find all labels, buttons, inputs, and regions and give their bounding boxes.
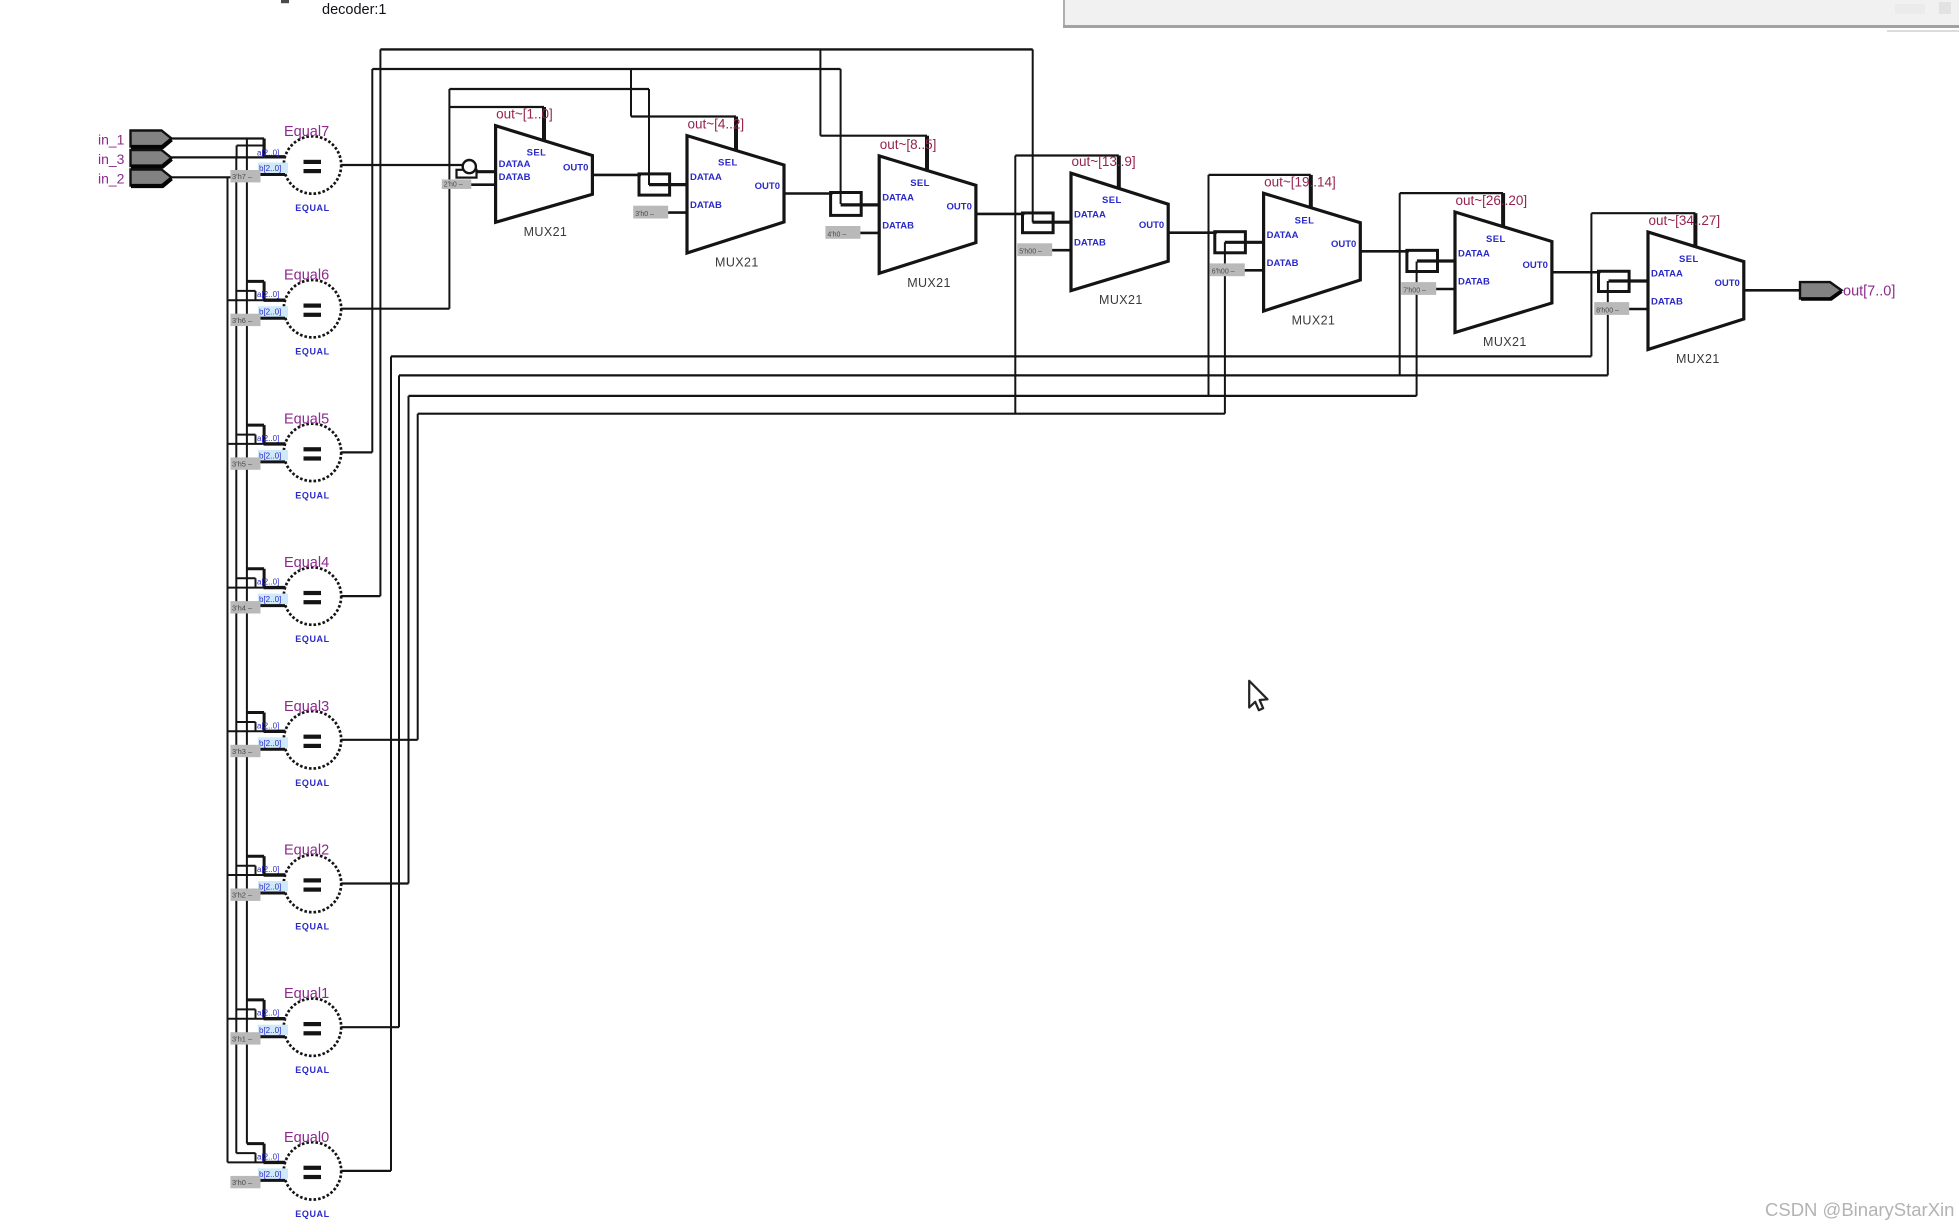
svg-text:out~[26..20]: out~[26..20] [1456, 193, 1528, 208]
svg-text:b[2..0]: b[2..0] [259, 739, 281, 748]
svg-text:in_3: in_3 [98, 151, 125, 167]
svg-text:8'h00 –: 8'h00 – [1596, 307, 1619, 314]
svg-text:MUX21: MUX21 [1676, 352, 1720, 366]
svg-text:DATAB: DATAB [1074, 238, 1106, 249]
svg-text:Equal5: Equal5 [284, 411, 329, 427]
svg-text:OUT0: OUT0 [1523, 260, 1548, 271]
svg-text:3'h0 –: 3'h0 – [635, 211, 654, 218]
svg-text:b[2..0]: b[2..0] [259, 308, 281, 317]
svg-text:MUX21: MUX21 [1483, 335, 1527, 349]
svg-text:a[2..0]: a[2..0] [257, 434, 279, 443]
svg-text:out~[4..2]: out~[4..2] [688, 117, 745, 132]
svg-text:Equal0: Equal0 [284, 1130, 329, 1146]
svg-text:7'h00 –: 7'h00 – [1403, 287, 1426, 294]
svg-text:SEL: SEL [1102, 195, 1122, 206]
svg-text:OUT0: OUT0 [755, 181, 780, 192]
svg-text:EQUAL: EQUAL [295, 922, 330, 932]
svg-text:a[2..0]: a[2..0] [257, 721, 279, 730]
svg-text:CSDN @BinaryStarXin: CSDN @BinaryStarXin [1765, 1199, 1954, 1220]
svg-text:Equal3: Equal3 [284, 699, 329, 715]
svg-text:a[2..0]: a[2..0] [257, 290, 279, 299]
svg-text:2'h0 –: 2'h0 – [444, 181, 463, 188]
svg-text:EQUAL: EQUAL [295, 490, 330, 500]
svg-text:5'h00 –: 5'h00 – [1019, 249, 1042, 256]
svg-text:3'h5 –: 3'h5 – [232, 460, 253, 469]
svg-text:a[2..0]: a[2..0] [257, 1009, 279, 1018]
svg-text:MUX21: MUX21 [1292, 314, 1336, 328]
svg-text:3'h2 –: 3'h2 – [232, 891, 253, 900]
svg-text:3'h1 –: 3'h1 – [232, 1034, 253, 1043]
svg-text:DATAA: DATAA [1651, 269, 1683, 280]
svg-text:DATAB: DATAB [1458, 277, 1490, 288]
svg-text:b[2..0]: b[2..0] [259, 1026, 281, 1035]
svg-text:DATAB: DATAB [690, 200, 722, 211]
svg-text:out~[13..9]: out~[13..9] [1072, 154, 1136, 169]
svg-text:a[2..0]: a[2..0] [257, 578, 279, 587]
svg-text:DATAA: DATAA [882, 192, 914, 203]
svg-text:EQUAL: EQUAL [295, 347, 330, 357]
svg-text:DATAA: DATAA [690, 172, 722, 183]
svg-text:EQUAL: EQUAL [295, 634, 330, 644]
svg-text:EQUAL: EQUAL [295, 778, 330, 788]
svg-text:SEL: SEL [1486, 234, 1506, 245]
svg-text:OUT0: OUT0 [1714, 278, 1739, 289]
svg-text:b[2..0]: b[2..0] [259, 883, 281, 892]
svg-text:in_2: in_2 [98, 171, 125, 187]
svg-text:out~[1..0]: out~[1..0] [496, 107, 553, 122]
svg-text:DATAB: DATAB [499, 172, 531, 183]
svg-text:out~[19..14]: out~[19..14] [1264, 174, 1336, 189]
svg-text:Equal2: Equal2 [284, 843, 329, 859]
svg-text:MUX21: MUX21 [524, 225, 568, 239]
svg-text:Equal7: Equal7 [284, 124, 329, 140]
svg-text:DATAB: DATAB [1267, 258, 1299, 269]
svg-text:3'h7 –: 3'h7 – [232, 172, 253, 181]
svg-text:OUT0: OUT0 [1139, 220, 1164, 231]
svg-text:b[2..0]: b[2..0] [259, 164, 281, 173]
svg-text:MUX21: MUX21 [907, 276, 951, 290]
svg-text:a[2..0]: a[2..0] [257, 149, 279, 158]
svg-text:OUT0: OUT0 [1331, 239, 1356, 250]
svg-text:out~[8..5]: out~[8..5] [880, 137, 937, 152]
svg-text:b[2..0]: b[2..0] [259, 1170, 281, 1179]
svg-text:out[7..0]: out[7..0] [1843, 283, 1895, 299]
svg-text:3'h0 –: 3'h0 – [232, 1178, 253, 1187]
svg-text:3'h3 –: 3'h3 – [232, 747, 253, 756]
svg-text:b[2..0]: b[2..0] [259, 595, 281, 604]
svg-text:OUT0: OUT0 [947, 201, 972, 212]
svg-text:DATAA: DATAA [499, 159, 531, 170]
svg-text:3'h6 –: 3'h6 – [232, 316, 253, 325]
svg-text:SEL: SEL [718, 158, 738, 169]
svg-text:DATAB: DATAB [1651, 297, 1683, 308]
svg-text:EQUAL: EQUAL [295, 1065, 330, 1075]
svg-text:Equal6: Equal6 [284, 268, 329, 284]
svg-text:SEL: SEL [1679, 254, 1699, 265]
svg-text:6'h00 –: 6'h00 – [1212, 269, 1235, 276]
svg-text:DATAB: DATAB [882, 220, 914, 231]
svg-text:SEL: SEL [910, 178, 930, 189]
svg-text:decoder:1: decoder:1 [322, 2, 387, 18]
svg-text:Equal1: Equal1 [284, 986, 329, 1002]
svg-text:in_1: in_1 [98, 132, 125, 148]
svg-text:Equal4: Equal4 [284, 555, 329, 571]
svg-text:SEL: SEL [1295, 215, 1315, 226]
svg-text:4'h0 –: 4'h0 – [827, 231, 846, 238]
svg-text:b[2..0]: b[2..0] [259, 451, 281, 460]
svg-text:3'h4 –: 3'h4 – [232, 603, 253, 612]
svg-text:DATAA: DATAA [1267, 230, 1299, 241]
svg-text:EQUAL: EQUAL [295, 1209, 330, 1219]
svg-text:a[2..0]: a[2..0] [257, 1152, 279, 1161]
svg-text:DATAA: DATAA [1458, 249, 1490, 260]
svg-text:DATAA: DATAA [1074, 210, 1106, 221]
svg-text:OUT0: OUT0 [563, 162, 588, 173]
svg-text:a[2..0]: a[2..0] [257, 865, 279, 874]
svg-text:MUX21: MUX21 [715, 256, 759, 270]
svg-text:out~[34..27]: out~[34..27] [1649, 213, 1721, 228]
svg-text:MUX21: MUX21 [1099, 293, 1143, 307]
svg-text:SEL: SEL [527, 148, 547, 159]
svg-text:EQUAL: EQUAL [295, 203, 330, 213]
